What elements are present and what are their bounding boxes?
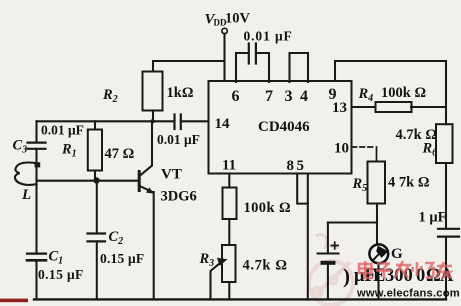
battery plus sign (331, 241, 340, 249)
label VDD 10V (205, 11, 251, 28)
svg-text:10V: 10V (225, 11, 251, 27)
microphone L body (15, 163, 37, 185)
svg-text:0.01 μF: 0.01 μF (244, 29, 293, 44)
wire pin10 corner down (376, 147, 378, 162)
wire C2 top vertical (96, 181, 98, 234)
watermark text chinese (drawn strokes, semi-transparent red) (359, 261, 452, 278)
svg-text:3: 3 (285, 88, 293, 105)
resistor R5 body (368, 162, 386, 204)
resistor R6 body (436, 124, 453, 163)
svg-text:0.01 μF: 0.01 μF (157, 132, 200, 147)
wire coupling cap to pin14 (181, 120, 209, 122)
wire R2 bottom to node (152, 111, 154, 122)
svg-text:11: 11 (222, 158, 236, 174)
wire R3 bottom (228, 282, 230, 299)
wire R5 bottom to meter (376, 204, 378, 244)
wire R1 top (94, 121, 96, 129)
resistor R1 body (88, 130, 102, 171)
svg-text:4: 4 (300, 88, 308, 105)
wire bracket pins 3-4 (290, 53, 309, 82)
svg-text:1kΩ: 1kΩ (167, 85, 194, 101)
wire emitter vertical (153, 192, 155, 299)
wire node to coupling cap (153, 120, 174, 122)
svg-text:7: 7 (265, 88, 273, 105)
watermark faint letters (316, 234, 338, 249)
node VDD terminal circle (222, 28, 227, 33)
wire R1 bottom (94, 171, 96, 181)
wire battery bottom (327, 265, 329, 300)
svg-text:L: L (21, 187, 31, 203)
svg-text:100k Ω: 100k Ω (244, 200, 291, 216)
wire mic vertical down to C1 (35, 165, 37, 254)
wire R4 to right rail (411, 106, 446, 108)
capacitor C3 plates (28, 143, 46, 149)
svg-text:4.7k Ω: 4.7k Ω (243, 258, 288, 274)
svg-text:0.15 μF: 0.15 μF (100, 251, 144, 266)
char shao (412, 262, 434, 278)
wire battery branch horizontal (328, 221, 377, 223)
resistor R2 body (143, 72, 163, 111)
wire C3 to mic node (35, 149, 37, 165)
wire bypass cap left leg pin6 (236, 53, 247, 82)
svg-text:VT: VT (161, 167, 182, 183)
svg-text:10: 10 (334, 141, 349, 157)
svg-text:): ) (343, 264, 350, 288)
wire battery top vertical (327, 223, 329, 254)
wire pin8 vertical (297, 174, 308, 204)
svg-text:47 Ω: 47 Ω (105, 146, 135, 162)
wire left rail to R2 bottom node (37, 120, 154, 122)
node junction dot base (93, 177, 99, 183)
wire 1uF bottom (445, 237, 447, 300)
svg-text:0.01 μF: 0.01 μF (41, 123, 84, 138)
wire top rail right (335, 60, 446, 62)
wire C2 bottom vertical (96, 241, 98, 299)
capacitor bypass 0.01uF plates (249, 44, 256, 64)
wire pin5 vertical (307, 174, 309, 300)
svg-text:www.elecfans.com: www.elecfans.com (356, 288, 460, 300)
wire bottom ground rail (34, 298, 446, 300)
wire pin10 dashed (352, 146, 376, 148)
IC U1 CD4046 body (209, 81, 352, 174)
svg-text:5: 5 (297, 158, 305, 174)
resistor 100k (pin11) body (223, 188, 237, 220)
transistor VT collector (139, 121, 152, 176)
svg-text:1 μF: 1 μF (419, 210, 447, 226)
svg-text:14: 14 (215, 116, 231, 132)
resistor R4 body (376, 102, 412, 112)
capacitor 1uF plates (438, 229, 459, 237)
wire pin13 to R4 (352, 106, 375, 108)
watermark logo circle with key (pale, behind circuit) (309, 261, 353, 305)
char fa (395, 261, 411, 278)
R3 wiper arrow (211, 264, 220, 300)
svg-text:CD4046: CD4046 (258, 119, 310, 135)
node junction R2/collector/cap (150, 119, 154, 123)
wire bypass cap right leg pin7 (258, 53, 270, 82)
char zi (376, 264, 392, 279)
wire pin9 vertical (334, 61, 336, 81)
wire 100k to R3 (228, 219, 230, 245)
transistor VT base bar (138, 172, 141, 191)
capacitor C1 plates (27, 254, 46, 261)
wire base rail (mic to transistor base) (37, 180, 139, 182)
wire top rail left (R2 top to VDD) (153, 61, 224, 72)
capacitor coupling 0.01uF plates (175, 115, 181, 130)
char you (436, 262, 452, 278)
svg-text:0.15 μF: 0.15 μF (38, 267, 84, 282)
wire C3 top vertical (35, 121, 37, 142)
svg-text:13: 13 (332, 100, 347, 116)
wire right vertical top (445, 61, 447, 124)
wire VDD vertical (223, 34, 225, 81)
char dian (359, 261, 373, 278)
wire R6 to 1uF (445, 163, 447, 229)
wire C1 bottom vertical (35, 260, 37, 299)
wire meter bottom (377, 264, 379, 299)
svg-text:8: 8 (287, 158, 295, 174)
left edge artifact red bar (0, 299, 28, 303)
wire pin11 vertical (228, 174, 230, 188)
caption text fragment (343, 264, 454, 288)
svg-text:G: G (391, 246, 403, 262)
capacitor C2 plates (88, 234, 106, 242)
node square junction at mic top (35, 162, 41, 167)
svg-text:6: 6 (232, 88, 240, 105)
svg-text:3DG6: 3DG6 (161, 189, 197, 205)
battery plates (318, 254, 339, 263)
svg-text:4 7k Ω: 4 7k Ω (388, 175, 429, 191)
meter G symbol (369, 244, 388, 263)
resistor R3 body (222, 245, 236, 282)
svg-text:100k Ω: 100k Ω (381, 85, 426, 101)
transistor VT emitter with arrow (139, 186, 153, 193)
